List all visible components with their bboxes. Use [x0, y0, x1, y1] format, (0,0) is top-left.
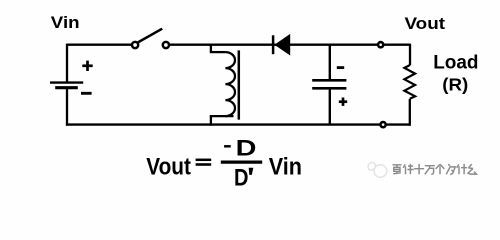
- svg-text:D: D: [234, 164, 249, 191]
- wire left vertical (top corner to battery +): [66, 44, 68, 82]
- svg-text:Vout: Vout: [405, 14, 446, 33]
- wire load right vertical top: [409, 44, 411, 66]
- switch S1 left contact: [132, 42, 138, 48]
- char 件: [403, 164, 414, 174]
- wire top rail right (switch to load corner): [170, 44, 411, 46]
- resistor R load zigzag: [404, 65, 415, 99]
- svg-text:Vout: Vout: [146, 153, 191, 180]
- formula denominator prime mark: [249, 168, 254, 175]
- char 么: [468, 164, 476, 174]
- formula fraction bar: [221, 160, 262, 163]
- capacitor C1: [312, 80, 346, 88]
- wire cap junction down: [329, 45, 331, 80]
- diode D1 cathode bar: [272, 35, 275, 54]
- char 万: [425, 166, 435, 175]
- formula equals sign: [196, 159, 212, 162]
- char 十: [414, 164, 424, 174]
- inductor core bar: [238, 50, 241, 119]
- capacitor plus sign: [339, 98, 347, 106]
- inductor L1: [210, 45, 235, 126]
- char 什: [457, 164, 467, 174]
- svg-text:Load: Load: [433, 53, 478, 74]
- formula numerator minus sign: [224, 145, 231, 148]
- diode D1 triangle: [274, 34, 290, 56]
- switch S1 right contact: [163, 42, 169, 48]
- wire left vertical (battery - to bottom rail): [66, 88, 68, 126]
- svg-text:Vin: Vin: [51, 13, 80, 32]
- wire load right vertical bottom: [409, 99, 411, 126]
- char 为: [446, 164, 455, 174]
- watermark logo: [368, 162, 387, 177]
- capacitor minus sign: [337, 66, 344, 69]
- svg-text:(R): (R): [442, 75, 468, 95]
- svg-text:Vin: Vin: [269, 153, 302, 180]
- battery minus sign: [81, 92, 92, 95]
- output terminal top: [378, 42, 383, 47]
- battery B1: [50, 83, 83, 88]
- battery plus sign: [82, 61, 92, 71]
- char 硬: [393, 165, 402, 174]
- switch S1 lever: [138, 29, 163, 43]
- output terminal bottom: [381, 122, 386, 127]
- wire cap to bottom rail: [329, 88, 331, 124]
- wire top rail left (battery to switch): [67, 44, 132, 46]
- watermark text 硬件十万个为什么 (drawn strokes): [393, 164, 477, 174]
- wire bottom rail: [66, 123, 410, 125]
- char 个: [436, 164, 445, 174]
- svg-text:D: D: [236, 135, 257, 160]
